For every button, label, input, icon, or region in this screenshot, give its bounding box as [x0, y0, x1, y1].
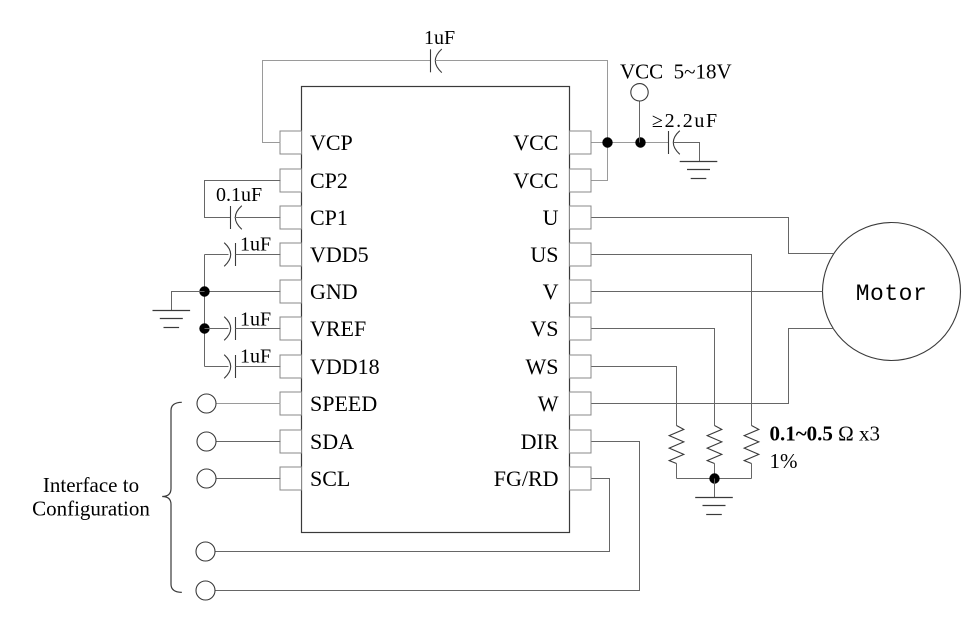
svg-text:CP2: CP2 — [310, 168, 348, 193]
svg-text:GND: GND — [310, 279, 358, 304]
svg-text:VCP: VCP — [310, 130, 353, 155]
wire SDA wire — [217, 441, 281, 443]
terminal DIR output — [196, 581, 215, 600]
wire bus to C3 — [205, 254, 229, 256]
wire rail to ground — [714, 479, 716, 498]
svg-text:VS: VS — [530, 316, 558, 341]
svg-text:VDD18: VDD18 — [310, 354, 380, 379]
capacitor C6 2.2uF — [669, 131, 680, 155]
wire VS sense to R2 — [592, 329, 715, 426]
svg-text:WS: WS — [526, 354, 559, 379]
svg-text:VCC: VCC — [513, 130, 558, 155]
wire C1 to VCC pin2 — [436, 61, 608, 181]
wire SCL wire — [217, 478, 281, 480]
wire VCC pin1 to C6 — [592, 142, 669, 144]
capacitor C2 0.1uF — [231, 206, 242, 230]
wire V phase to motor — [592, 291, 823, 293]
junction sense common — [709, 473, 719, 483]
junction VCC net / C1 branch — [602, 137, 612, 147]
svg-text:VCC: VCC — [513, 168, 558, 193]
svg-text:CP1: CP1 — [310, 205, 348, 230]
pin SPEED (left 8) — [280, 391, 377, 416]
svg-text:DIR: DIR — [521, 429, 559, 454]
svg-text:Configuration: Configuration — [32, 497, 150, 521]
svg-text:V: V — [543, 279, 559, 304]
pin VCP (left 1) — [280, 130, 353, 155]
pin VS (right 6) — [530, 316, 591, 341]
svg-text:1uF: 1uF — [240, 346, 271, 368]
svg-text:SDA: SDA — [310, 429, 354, 454]
resistor R3 0.1~0.5 — [744, 426, 759, 464]
wire GND to ground symbol — [172, 292, 205, 311]
wire C4 to VREF — [236, 328, 281, 330]
wire C3 to VDD5 — [236, 254, 281, 256]
brace interface-to-configuration — [162, 402, 182, 592]
svg-text:FG/RD: FG/RD — [494, 466, 559, 491]
svg-text:VREF: VREF — [310, 316, 366, 341]
pin VCC (right 1) — [513, 130, 591, 155]
terminal SPEED input — [197, 394, 216, 413]
junction bus/VREF — [199, 323, 209, 333]
pin VDD18 (left 7) — [280, 354, 380, 379]
svg-text:US: US — [530, 242, 558, 267]
pin CP1 (left 3) — [280, 205, 348, 230]
resistor R1 0.1~0.5 — [669, 426, 684, 464]
pin V (right 5) — [543, 279, 591, 304]
svg-text:1%: 1% — [770, 449, 798, 473]
pin VREF (left 6) — [280, 316, 366, 341]
pin U (right 3) — [543, 205, 591, 230]
ground at C6 — [680, 162, 718, 179]
op-amp-style IC U1 (motor driver) — [302, 87, 570, 533]
pin FG/RD (right 10) — [494, 466, 591, 491]
svg-text:1uF: 1uF — [424, 27, 455, 49]
pin CP2 (left 2) — [280, 168, 348, 193]
capacitor C3 1uF — [224, 243, 235, 267]
pin US (right 4) — [530, 242, 591, 267]
pin GND (left 5) — [280, 279, 358, 304]
capacitor C5 1uF — [224, 355, 235, 379]
wire bus to C4 — [205, 328, 229, 330]
svg-text:W: W — [538, 391, 559, 416]
wire C2 to CP1 — [235, 217, 281, 219]
wire W phase to motor — [592, 329, 834, 404]
resistor R2 0.1~0.5 — [707, 426, 722, 464]
svg-text:≥2.2uF: ≥2.2uF — [652, 110, 719, 132]
wire CP2 to C2 — [205, 181, 281, 218]
junction bus/GND — [199, 286, 209, 296]
wire SPEED wire — [217, 403, 281, 405]
wire FG/RD loop — [216, 479, 610, 552]
wire R2 lead — [714, 464, 716, 479]
ground sense — [695, 498, 733, 515]
wire US sense to R3 — [592, 255, 752, 426]
svg-text:U: U — [543, 205, 559, 230]
wire WS sense to R1 — [592, 367, 677, 426]
svg-text:Motor: Motor — [856, 281, 928, 307]
terminal SCL input — [197, 469, 216, 488]
pin WS (right 7) — [526, 354, 592, 379]
wire VCP to C1 — [263, 61, 431, 143]
svg-text:SCL: SCL — [310, 466, 350, 491]
capacitor C4 1uF — [224, 317, 235, 341]
svg-text:1uF: 1uF — [240, 308, 271, 330]
svg-text:0.1~0.5 Ω x3: 0.1~0.5 Ω x3 — [770, 422, 881, 446]
svg-text:VDD5: VDD5 — [310, 242, 369, 267]
wire C5 to VDD18 — [236, 366, 281, 368]
svg-text:Interface to: Interface to — [43, 473, 139, 497]
ground left — [153, 311, 191, 328]
pin VCC (right 2) — [513, 168, 591, 193]
pin SCL (left 10) — [280, 466, 350, 491]
wire bus to C5 — [205, 366, 229, 368]
svg-text:1uF: 1uF — [240, 234, 271, 256]
junction VCC net / supply branch — [635, 137, 645, 147]
pin W (right 8) — [538, 391, 591, 416]
capacitor C1 1uF — [431, 49, 442, 73]
svg-text:0.1uF: 0.1uF — [216, 184, 262, 206]
wire bus to GND pin — [205, 291, 281, 293]
svg-text:SPEED: SPEED — [310, 391, 377, 416]
terminal FG/RD output — [196, 542, 215, 561]
wire U phase to motor — [592, 218, 834, 254]
terminal SDA input — [197, 432, 216, 451]
motor M1 — [823, 223, 961, 361]
wire R3 lead — [751, 464, 753, 479]
wire C6 to ground — [674, 143, 700, 162]
wire R1 lead — [676, 464, 678, 479]
pin DIR (right 9) — [521, 429, 591, 454]
pin SDA (left 9) — [280, 429, 354, 454]
wire sense common rail — [677, 478, 752, 480]
pin VDD5 (left 4) — [280, 242, 369, 267]
terminal VCC supply — [631, 84, 648, 101]
svg-text:VCC 5~18V: VCC 5~18V — [620, 60, 732, 84]
wire left analog bus — [204, 255, 206, 367]
wire VCC terminal stem — [639, 102, 641, 143]
wire DIR loop — [216, 442, 640, 591]
